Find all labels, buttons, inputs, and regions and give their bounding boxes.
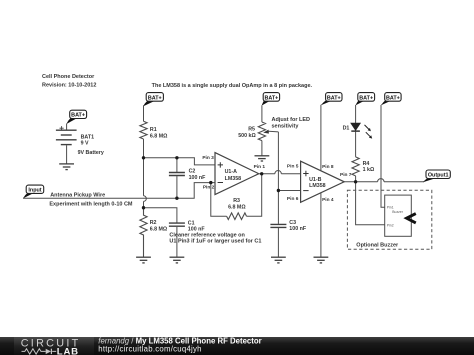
svg-text:Pin 2: Pin 2 [203, 184, 215, 190]
svg-text:U1-A: U1-A [225, 169, 238, 175]
svg-text:Pin1: Pin1 [387, 206, 394, 210]
svg-text:R1: R1 [150, 127, 157, 133]
junction node R2 top / C1 [142, 206, 145, 209]
svg-text:1 kΩ: 1 kΩ [363, 167, 375, 173]
wire node A to pin3 jog [144, 158, 216, 165]
ground (C3) [271, 257, 286, 263]
potentiometer R5 [238, 105, 310, 155]
svg-text:Pin 5: Pin 5 [287, 164, 299, 170]
buzzer BZ1 [385, 195, 416, 236]
net label Output1 [423, 170, 450, 182]
svg-text:6.8 MΩ: 6.8 MΩ [228, 204, 246, 210]
svg-text:Pin2: Pin2 [387, 223, 394, 227]
svg-text:500 kΩ: 500 kΩ [238, 133, 256, 139]
wire BAT+ to R1 [143, 105, 145, 121]
svg-text:Pin 1: Pin 1 [254, 164, 266, 170]
resistor R4 [352, 157, 375, 176]
wire node A down with hop over antenna [144, 158, 147, 208]
svg-text:BAT+: BAT+ [264, 96, 278, 102]
ground (R2) [136, 257, 151, 263]
svg-text:BAT+: BAT+ [71, 113, 85, 119]
footer bar (CircuitLab attribution) [0, 336, 474, 355]
net label BAT+ (buzzer) [381, 93, 401, 106]
wire pin7 output with hop [344, 179, 424, 182]
capacitor C2 [169, 158, 206, 198]
svg-text:100 nF: 100 nF [189, 175, 207, 181]
wire R3 to pin2 [211, 183, 227, 217]
svg-text:Pin 6: Pin 6 [287, 196, 299, 202]
svg-text:Output1: Output1 [428, 173, 449, 179]
net label Input [23, 185, 44, 198]
wire BAT+ to buzzer pin1 [381, 105, 385, 207]
optional buzzer dashed box [347, 190, 431, 249]
wire pin1 to pin5 with hop [259, 171, 301, 174]
svg-text:http://circuitlab.com/cuq4jyh: http://circuitlab.com/cuq4jyh [98, 344, 201, 353]
wire R5 wiper column down to C3 [277, 132, 279, 224]
feedback wire pin1 to R3 [247, 174, 262, 216]
svg-text:LM358: LM358 [309, 183, 326, 189]
junction node C2 top tap [175, 156, 178, 159]
junction node pin2 / R3 feedback [209, 181, 212, 184]
wire node B horizontal to C1 [144, 208, 177, 223]
svg-text:Optional Buzzer: Optional Buzzer [356, 242, 399, 248]
svg-text:Pin 3: Pin 3 [202, 155, 214, 161]
svg-text:Buzzer: Buzzer [392, 210, 403, 214]
svg-text:Experiment with length 0-10 CM: Experiment with length 0-10 CM [49, 202, 133, 208]
net label BAT+ (R5) [262, 93, 280, 106]
svg-text:U1 Pin3 if 1uF or larger used: U1 Pin3 if 1uF or larger used for C1 [169, 239, 261, 245]
ground (battery) [59, 164, 74, 170]
antenna wire [23, 183, 215, 208]
svg-text:Adjust for LED: Adjust for LED [272, 117, 311, 123]
ground (C1) [170, 257, 185, 263]
svg-text:The LM358 is a single supply d: The LM358 is a single supply dual OpAmp … [152, 83, 313, 89]
svg-text:100 nF: 100 nF [289, 226, 307, 232]
svg-text:6.8 MΩ: 6.8 MΩ [150, 134, 168, 140]
junction node pin1 output [260, 172, 263, 175]
LED D1 [343, 123, 373, 139]
svg-text:LM358: LM358 [225, 176, 242, 182]
svg-text:Pin 4: Pin 4 [322, 197, 334, 203]
wire pin6 stub [278, 190, 300, 192]
svg-text:BAT+: BAT+ [327, 96, 341, 102]
svg-text:Pin 8: Pin 8 [322, 164, 334, 170]
svg-text:BAT+: BAT+ [359, 96, 373, 102]
resistor R1 [140, 121, 168, 140]
capacitor C1 [169, 220, 205, 257]
net label BAT+ (pin 8) [321, 93, 342, 106]
svg-text:Cell Phone Detector: Cell Phone Detector [42, 74, 95, 80]
svg-text:R5: R5 [248, 127, 255, 133]
svg-text:Antenna Pickup Wire: Antenna Pickup Wire [50, 192, 105, 198]
wire R4 to output node [355, 176, 357, 182]
capacitor C3 [270, 220, 306, 257]
wire output node to buzzer pin2 [356, 182, 385, 225]
resistor R2 [140, 208, 168, 257]
resistor R3 [227, 198, 247, 220]
svg-text:Input: Input [28, 188, 41, 194]
junction node pin7 output / R4 / buzzer [354, 180, 357, 183]
svg-text:9V Battery: 9V Battery [78, 150, 104, 156]
op-amp U1-A [202, 153, 265, 195]
svg-text:R3: R3 [233, 198, 240, 204]
wire D1 to R4 [355, 132, 357, 157]
ground (R5) [255, 156, 270, 161]
net label BAT+ (D1) [355, 93, 374, 106]
svg-text:LAB: LAB [57, 346, 79, 355]
wire pin 8 [320, 105, 322, 171]
svg-text:Pin 7: Pin 7 [340, 172, 352, 178]
title text [42, 74, 96, 89]
net label BAT+ (R1 column) [143, 93, 163, 107]
svg-text:sensitivity: sensitivity [272, 124, 300, 130]
svg-text:BAT+: BAT+ [148, 96, 162, 102]
svg-text:Cleaner reference voltage on: Cleaner reference voltage on [169, 232, 245, 238]
svg-text:C2: C2 [189, 169, 196, 175]
junction node R1 bottom / pin3 net [142, 156, 145, 159]
wire R1 to node A [143, 139, 145, 158]
net label BAT+ (battery) [66, 110, 86, 124]
wire BAT+ to D1 [355, 105, 357, 123]
ground (pin 4) [314, 257, 329, 263]
svg-text:R2: R2 [150, 220, 157, 226]
battery BAT1 [56, 124, 104, 164]
svg-text:BAT+: BAT+ [386, 96, 400, 102]
cleaner reference note [169, 232, 261, 244]
op-amp U1-B [287, 161, 352, 203]
junction node C2 bottom / antenna [175, 197, 178, 200]
junction node pin6 / C3 [277, 189, 280, 192]
wire pin 4 [320, 192, 322, 257]
svg-text:D1: D1 [343, 125, 350, 131]
svg-text:Revision: 10-10-2012: Revision: 10-10-2012 [42, 83, 96, 89]
svg-text:9 V: 9 V [81, 140, 89, 146]
svg-text:6.8 MΩ: 6.8 MΩ [150, 226, 168, 232]
note about LM358 package [152, 83, 313, 89]
